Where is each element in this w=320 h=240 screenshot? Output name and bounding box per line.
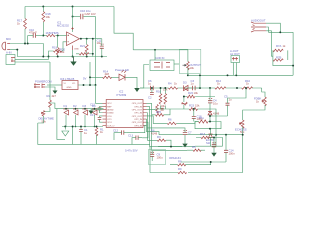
wire LED to ground	[125, 77, 137, 88]
svg-text:CLK_O: CLK_O	[107, 125, 114, 127]
wire IC2 right p4	[147, 108, 156, 111]
wire IC2 right p5	[147, 116, 168, 124]
wire echo loop	[195, 122, 221, 129]
wire C9 stubs	[151, 151, 153, 161]
svg-text:VCC: VCC	[107, 103, 112, 105]
wire pot bottom to rail	[187, 68, 189, 76]
capacitor C9	[150, 152, 154, 156]
wire C18	[193, 109, 195, 122]
resistor R21	[85, 45, 88, 52]
wire R3 right	[166, 140, 171, 146]
wire echoes bottom	[216, 127, 243, 173]
svg-text:R19: R19	[52, 46, 58, 50]
svg-text:AUD IN: AUD IN	[155, 56, 164, 60]
wire C11 bottom	[101, 48, 103, 56]
node junction opamp out	[80, 38, 82, 40]
op-amp supply wire	[72, 7, 74, 33]
wire R13	[196, 138, 223, 147]
resistor R7B	[273, 59, 283, 61]
wire R7 parallel loop	[273, 50, 293, 65]
wire R22	[183, 96, 215, 98]
wire R8	[170, 162, 211, 165]
wire rail y146	[158, 146, 182, 148]
potentiometer FEEDBK	[262, 97, 267, 106]
node junction rail2	[72, 16, 74, 18]
node junction rail-R21	[86, 56, 88, 58]
wire diode drops bottom	[66, 115, 95, 127]
diode ECHO switch	[209, 134, 213, 137]
wire R14 to LED	[111, 76, 119, 78]
wire R20 bottom	[57, 55, 59, 57]
wire D2 bottom to echo loop	[209, 115, 211, 122]
wire C10 drop to mic	[27, 36, 29, 44]
wire bottom rail y172	[150, 172, 243, 174]
resistor R9 bottom rail	[178, 171, 187, 173]
wire C5 riser from rail	[228, 88, 247, 103]
capacitor C13 mid	[136, 136, 138, 140]
capacitor C18	[192, 116, 196, 118]
svg-text:CC1: CC1	[107, 119, 112, 121]
resistor R27 feedback	[79, 53, 89, 55]
svg-text:R6: R6	[168, 118, 172, 122]
svg-text:10k: 10k	[190, 66, 195, 70]
potentiometer DELAYTIME	[41, 111, 45, 117]
svg-text:OP1_OUT: OP1_OUT	[132, 110, 143, 112]
wire audioout bus y32	[268, 31, 293, 33]
resistor R26 on bus	[156, 105, 159, 113]
svg-text:1k: 1k	[283, 44, 287, 48]
resistor R10	[242, 87, 253, 89]
svg-text:MIC: MIC	[6, 37, 11, 41]
wire C12	[114, 133, 127, 140]
wire frame top riser	[50, 103, 55, 109]
svg-text:R4: R4	[168, 82, 172, 86]
wire C8 top	[213, 138, 215, 145]
svg-text:REF: REF	[107, 106, 112, 108]
svg-text:R2: R2	[47, 94, 51, 98]
LED D5 Power LED	[119, 70, 126, 80]
resistor R11 echo loop	[199, 120, 209, 123]
node junction mic top at C10	[27, 43, 29, 45]
svg-text:R23: R23	[189, 104, 195, 108]
wire IC2 right p8	[127, 125, 147, 132]
svg-text:R5: R5	[192, 145, 196, 149]
diode DA1	[64, 110, 69, 115]
wire C1	[80, 127, 82, 145]
potentiometer OUTPUT	[187, 62, 190, 70]
wire audioout bottom pin	[266, 31, 273, 56]
capacitor C7 electrolytic	[183, 131, 187, 135]
wire top rail	[25, 6, 114, 8]
wire opamp minus input	[62, 42, 67, 51]
IC2 pin names right	[132, 103, 143, 127]
wire ground rail y56	[17, 56, 107, 58]
svg-text:CC0: CC0	[107, 116, 112, 118]
wire aud-in left pin to rail	[140, 65, 149, 89]
wire C13	[132, 138, 142, 145]
svg-text:OP2_OUT: OP2_OUT	[132, 116, 143, 118]
capacitor C14	[224, 150, 228, 152]
resistor R15	[47, 34, 56, 36]
resistor R18	[42, 12, 45, 23]
svg-text:1k: 1k	[174, 82, 178, 86]
svg-text:100n: 100n	[229, 151, 236, 155]
wire riser x200 to AOUT rail	[199, 75, 201, 88]
svg-text:5V: 5V	[83, 77, 87, 81]
wire trimpot	[183, 97, 185, 110]
op-amp vplus pin mark	[71, 27, 73, 29]
wire R1	[96, 127, 98, 145]
IC2 pin names left	[107, 103, 114, 127]
svg-text:C13: C13	[128, 134, 134, 138]
capacitor C2 below rail	[150, 93, 154, 95]
svg-text:CAP 10V: CAP 10V	[85, 12, 96, 16]
wire vertical x50 down	[49, 62, 51, 100]
wire feedbk to echoes pot	[243, 88, 265, 120]
IC2 left pin stubs	[103, 103, 107, 125]
svg-text:A-IN: A-IN	[6, 51, 12, 55]
frame OUTPUT pot	[179, 49, 201, 73]
wire frame left and bottom	[38, 123, 150, 144]
wire R18 bottom	[42, 22, 44, 36]
wire R21 bottom	[86, 52, 88, 57]
svg-text:OP0_IN: OP0_IN	[134, 106, 142, 108]
capacitor C5	[226, 103, 230, 105]
svg-text:OP2_IN: OP2_IN	[134, 119, 142, 121]
wire echo sw	[210, 129, 212, 147]
svg-text:C12: C12	[113, 129, 119, 133]
node junction top rail at R18	[42, 6, 44, 8]
resistor R14	[103, 76, 112, 78]
capacitor C3	[193, 86, 196, 90]
op-amp U1 IC1	[67, 32, 80, 46]
svg-text:OP3_IN: OP3_IN	[134, 125, 142, 127]
wire AGND pin left	[91, 109, 103, 112]
ground LED	[134, 88, 140, 92]
wire C10 left	[28, 35, 34, 37]
node junction mic top at R17	[24, 43, 26, 45]
resistor R12	[215, 87, 226, 89]
svg-text:10k: 10k	[161, 104, 166, 108]
wire mic bottom pin to ground rail	[10, 50, 17, 57]
wire IC2 right p1	[147, 103, 188, 150]
resistor R1	[95, 128, 98, 137]
wire R27 stubs	[76, 53, 93, 55]
svg-text:100u: 100u	[157, 155, 164, 159]
wire signal rail y88	[140, 87, 262, 89]
wire C17	[100, 116, 103, 122]
wire right vertical x293	[292, 32, 294, 75]
wire R20 top	[57, 36, 59, 48]
svg-text:VO: VO	[72, 83, 75, 85]
wire regulator out +5 rail	[78, 84, 96, 86]
svg-text:PT2399: PT2399	[117, 93, 127, 97]
node junction rail88 x210	[209, 87, 211, 89]
wire IC2 right p7	[142, 122, 148, 138]
svg-text:OPA2134: OPA2134	[169, 156, 181, 160]
staircase wire top to AUD IN	[114, 7, 133, 50]
wire plus-in trunk	[43, 35, 46, 37]
svg-text:VCO: VCO	[107, 122, 112, 124]
svg-text:10u: 10u	[97, 41, 102, 45]
wire +5 to IC vcc pin	[96, 85, 103, 103]
svg-text:R21: R21	[80, 44, 86, 48]
wire C4 top	[209, 88, 211, 101]
svg-text:IC3 L78L05: IC3 L78L05	[60, 77, 75, 81]
wire A-OUT rail y75	[188, 74, 293, 76]
resistor R17	[24, 19, 27, 30]
wire R21 top	[86, 39, 88, 45]
wire C16 right	[83, 16, 95, 18]
wire R2 bottom	[44, 107, 51, 111]
svg-text:OP3_OUT: OP3_OUT	[132, 122, 143, 124]
svg-text:SW: SW	[206, 141, 211, 145]
resistor R5	[193, 149, 201, 151]
capacitor C1	[79, 130, 83, 132]
svg-text:Power LED: Power LED	[115, 68, 129, 72]
svg-text:OP0_OUT: OP0_OUT	[132, 103, 143, 105]
resistor R6	[167, 122, 176, 124]
svg-text:4k8: 4k8	[105, 72, 110, 76]
microphone MIC	[2, 42, 10, 50]
potentiometer ECHOES	[239, 120, 244, 129]
svg-text:0.47u 50V: 0.47u 50V	[125, 149, 138, 153]
svg-text:R9: R9	[178, 167, 182, 171]
svg-text:10u: 10u	[213, 102, 218, 106]
ground IC2 agnd	[88, 111, 93, 115]
svg-text:POWERCON: POWERCON	[35, 80, 52, 84]
wire powercon to regulator	[47, 84, 62, 86]
wire y146 run right	[195, 145, 223, 147]
node junction R20 tap	[57, 35, 59, 37]
svg-text:C7: C7	[188, 131, 192, 135]
wire R19 left to rail	[49, 51, 54, 57]
wire rail y162	[181, 161, 226, 163]
resistor R20	[56, 48, 59, 55]
wire A-IN lower pin	[15, 61, 50, 63]
svg-text:AUDIOOUT: AUDIOOUT	[251, 19, 266, 23]
node junction rail-C11	[101, 56, 103, 58]
capacitor C16	[81, 14, 83, 19]
wire pot top from staircase	[133, 50, 188, 62]
diode DA3	[83, 110, 88, 115]
wire C5 bottom stub	[227, 105, 229, 116]
diode pair D3	[184, 85, 189, 90]
voltage regulator IC3	[62, 81, 78, 90]
wire audioout mid pin	[266, 27, 268, 32]
wire riser x150	[149, 147, 151, 173]
capacitor C15 bypass	[98, 108, 102, 110]
node junction rail-R20	[57, 56, 59, 58]
svg-text:100n: 100n	[197, 117, 204, 121]
node junction +5 rail LED tap	[83, 84, 85, 86]
svg-text:R7B: R7B	[276, 55, 282, 59]
node junction rail88 x237	[236, 87, 238, 89]
wire R17 bottom to mic node	[24, 29, 26, 44]
trimpot VR2	[181, 102, 187, 105]
wire A-OUT pins down	[233, 63, 236, 76]
wire delaytime down to frame	[38, 116, 44, 123]
capacitor C8 electrolytic	[212, 143, 216, 147]
svg-text:1u: 1u	[84, 131, 88, 135]
ground C8	[211, 153, 216, 157]
wire A-IN upper pin	[15, 57, 49, 60]
IC2 PT2399 body	[106, 100, 143, 128]
resistor R2	[49, 100, 52, 107]
wire LED branch riser	[90, 62, 103, 85]
wire R18 top	[42, 7, 44, 12]
svg-text:10k: 10k	[46, 15, 51, 19]
node junction rail-R19	[48, 56, 50, 58]
ground powercon	[45, 87, 55, 91]
svg-text:GND: GND	[74, 49, 79, 51]
wire vertical resistors top to rail	[161, 88, 166, 94]
wire R24	[152, 109, 170, 115]
svg-text:1K5OHMS: 1K5OHMS	[46, 31, 59, 35]
ground C7	[182, 144, 187, 148]
wire frame top rail y108	[55, 108, 104, 110]
svg-text:R7A: R7A	[276, 44, 282, 48]
ground arrow big	[64, 127, 66, 130]
wire C15	[100, 106, 103, 112]
resistor R3 bottom	[157, 139, 166, 141]
svg-text:15k: 15k	[195, 104, 200, 108]
diode D2	[208, 112, 212, 115]
resistor R19	[54, 50, 62, 52]
node junction rail88 x200	[199, 87, 201, 89]
wire mic top pin	[10, 44, 43, 57]
capacitor C6	[151, 86, 154, 90]
svg-text:VI: VI	[64, 83, 66, 85]
wire long vertical to +5V rail	[95, 17, 97, 86]
wire rail y126	[62, 126, 103, 128]
svg-text:R25: R25	[156, 110, 162, 114]
svg-text:OP1_IN: OP1_IN	[134, 113, 142, 115]
capacitor C11	[100, 44, 104, 48]
diode DA2	[74, 110, 79, 115]
svg-text:R3: R3	[157, 135, 161, 139]
wire x72 drop to frame bottom	[72, 127, 74, 145]
wire opamp output	[80, 38, 102, 40]
capacitor C17 bypass	[98, 117, 102, 119]
capacitor C19 on bus	[161, 108, 164, 110]
capacitor C12 mid	[122, 130, 124, 134]
svg-text:AGND: AGND	[107, 109, 114, 112]
node junction out-R21	[86, 38, 88, 40]
node junction plus trunk	[42, 35, 44, 37]
resistor R4	[169, 87, 178, 89]
svg-text:470nF: 470nF	[29, 31, 37, 35]
wire R6 right to echo loop	[177, 122, 199, 124]
wire IC2 right p2	[147, 106, 196, 146]
node junction rail-mic	[42, 56, 44, 58]
wire C7	[184, 131, 186, 144]
diode DA4	[93, 110, 98, 115]
resistor R13 mid-bottom	[201, 136, 209, 138]
node junction aout rail	[227, 74, 229, 76]
ground symbol main	[70, 57, 76, 66]
resistor R16 vertical	[159, 94, 162, 105]
wire diode risers top	[66, 109, 95, 111]
wire R17 top	[24, 7, 26, 19]
node junction top rail at opamp supply	[72, 6, 74, 8]
wire IC2 right p6	[147, 119, 160, 135]
resistor R8	[178, 164, 186, 166]
frame C9 box	[149, 150, 166, 165]
wire output feedback drop	[92, 39, 94, 57]
wire C7 feed	[147, 128, 185, 131]
op-amp vminus stub	[72, 46, 74, 51]
node junction +5 rail ic vcc	[95, 84, 97, 86]
wire R15 to opamp	[56, 35, 67, 37]
svg-text:10k: 10k	[194, 91, 199, 95]
wire inner frame vertical	[57, 109, 65, 140]
connector A-IN	[6, 55, 15, 65]
wire C4 bottom	[209, 103, 211, 112]
capacitor C10	[33, 33, 35, 37]
wire supply rail2	[73, 16, 81, 18]
svg-text:1u: 1u	[191, 82, 195, 86]
resistor R7A	[273, 49, 283, 51]
svg-text:D3: D3	[183, 81, 187, 85]
resistor R22 horizontal	[187, 95, 195, 98]
wire aud-in pins right	[174, 63, 179, 65]
wire IC2 right p3	[147, 113, 158, 141]
wire y134 long run	[159, 134, 216, 136]
wire D2 bottom link	[210, 115, 228, 117]
wire C10 right	[36, 35, 43, 37]
svg-text:DGND: DGND	[107, 113, 114, 115]
svg-text:C2: C2	[148, 96, 152, 100]
svg-text:4k7: 4k7	[52, 94, 57, 98]
wire y109 run	[155, 109, 216, 135]
capacitor C4 electrolytic	[208, 99, 212, 103]
IC2 right pin stubs	[143, 103, 147, 125]
wire audioout top pin	[266, 23, 280, 32]
resistor R17b vertical	[164, 94, 167, 105]
svg-text:R13: R13	[200, 132, 206, 136]
svg-text:GND: GND	[67, 87, 72, 89]
svg-text:MC33202: MC33202	[57, 24, 69, 28]
wire C14	[225, 135, 227, 162]
wire R5	[187, 149, 205, 151]
svg-text:1u: 1u	[148, 82, 152, 86]
wire vertical resistors bottom	[161, 106, 166, 110]
wire C11 top	[101, 39, 103, 46]
wire C8 bottom gnd	[213, 147, 215, 153]
resistor R24 horizontal	[156, 113, 164, 116]
resistor R23 horizontal	[189, 108, 197, 111]
